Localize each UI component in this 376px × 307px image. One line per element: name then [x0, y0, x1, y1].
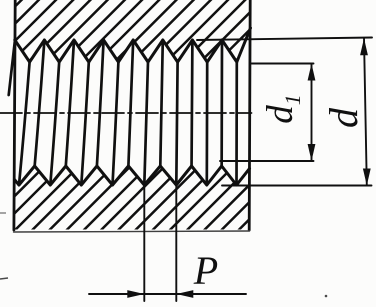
scan speck, left margin: [0, 278, 8, 279]
extension line, top of d1 (minor diameter): [252, 63, 314, 65]
nut right edge: [249, 0, 250, 230]
scan speck, left margin lower: [0, 212, 6, 214]
extension line, top of d (major diameter): [197, 38, 372, 41]
thread profile, bottom (zigzag groove outline): [15, 166, 250, 185]
thread flank lines across the bore: [9, 40, 237, 185]
extension line, left flank for pitch P: [143, 185, 145, 301]
dimension line d1 with arrows: [311, 64, 313, 162]
dimension line P with inward arrows: [89, 293, 246, 295]
centerline (axis, dash-dot): [0, 112, 252, 114]
bottom hatching (sectioned nut material, lower band): [0, 0, 376, 240]
nut bottom edge (faint in scan): [14, 231, 250, 232]
dimension line d with arrows: [364, 38, 367, 186]
extension line, right flank for pitch P: [175, 185, 177, 301]
thread profile, top (zigzag groove outline): [15, 28, 251, 62]
extension line, bottom of d: [222, 185, 372, 187]
scan speck, right of P dimension: [325, 295, 328, 298]
top hatching (sectioned nut material, upper band): [0, 0, 376, 240]
svg-text:P: P: [193, 248, 218, 293]
nut left edge: [14, 0, 15, 230]
svg-text:d: d: [321, 107, 366, 128]
extension line, bottom of d1: [220, 160, 314, 162]
